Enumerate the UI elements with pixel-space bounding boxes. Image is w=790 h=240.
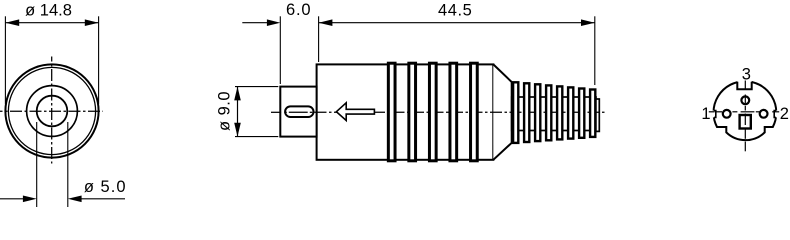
strain relief rib 5 — [557, 86, 562, 139]
svg-text:2: 2 — [780, 105, 789, 123]
svg-text:ø 5.0: ø 5.0 — [84, 178, 127, 196]
dimension ø5.0 left leader — [0, 198, 23, 200]
dimension ø5.0 extension line right — [67, 122, 69, 207]
svg-text:ø 14.8: ø 14.8 — [25, 1, 72, 19]
dimension ø5.0 arrow left — [23, 196, 37, 203]
cable cone — [493, 64, 511, 159]
dimension ø14.8 extension line left — [4, 16, 6, 104]
pin 1 hole — [723, 110, 731, 118]
dimension ø14.8 arrow right — [85, 19, 99, 26]
svg-text:ø 9.0: ø 9.0 — [216, 91, 234, 131]
svg-text:6.0: 6.0 — [286, 1, 311, 19]
svg-text:3: 3 — [742, 65, 751, 83]
direction arrow outline — [336, 103, 374, 121]
face horizontal centerline — [709, 111, 779, 113]
center key slot — [740, 115, 751, 129]
dimension 44.5 line — [319, 22, 595, 24]
body ring 4 — [450, 63, 457, 161]
front view horizontal centerline — [0, 110, 103, 112]
svg-text:1: 1 — [701, 105, 710, 123]
plug body — [317, 64, 494, 159]
dimension ø9.0 line — [237, 87, 239, 137]
strain relief core — [512, 97, 596, 131]
front view middle circle — [27, 86, 78, 137]
strain relief rib 2 — [524, 83, 529, 142]
dimension 6.0 left leader — [242, 22, 267, 24]
dimension 6.0 extension left — [279, 16, 281, 84]
body ring 3 — [429, 63, 436, 161]
dimension ø5.0 arrow right — [68, 196, 82, 203]
pin 3 hole — [741, 96, 749, 104]
svg-text:44.5: 44.5 — [438, 1, 473, 19]
right detent notch — [774, 111, 778, 118]
front barrel — [280, 87, 316, 137]
pin 2 hole — [760, 110, 768, 118]
dimension ø14.8 line — [5, 22, 98, 24]
body ring 5 — [471, 63, 478, 161]
dimension ø5.0 extension line left — [36, 122, 38, 207]
side view centerline — [271, 111, 606, 113]
body ring 1 — [388, 63, 395, 161]
keyway notch — [737, 77, 751, 89]
strain relief rib 4 — [546, 85, 551, 140]
front view inner circle — [37, 96, 68, 127]
face vertical centerline — [744, 81, 746, 152]
shield outline — [714, 81, 777, 140]
strain relief rib 1 — [513, 82, 518, 143]
dimension 44.5 extension right — [594, 16, 596, 85]
strain relief rib 7 — [579, 89, 584, 138]
dimension ø9.0 extension top — [235, 86, 278, 88]
dimension 6.0 extension right / 44.5 left — [318, 16, 320, 62]
dimension ø5.0 right leader — [81, 198, 125, 200]
strain relief rib 3 — [535, 84, 540, 141]
strain relief rib 6 — [568, 87, 573, 138]
front view vertical centerline — [51, 57, 53, 164]
body ring 2 — [409, 63, 416, 161]
dimension ø9.0 extension bottom — [235, 136, 278, 138]
barrel slot — [285, 106, 313, 117]
dimension ø9.0 arrow down — [234, 123, 241, 137]
strain relief end stub — [596, 99, 599, 131]
front view rim circle — [8, 67, 95, 154]
front view outer circle — [5, 64, 98, 157]
strain relief rib 8 — [590, 90, 595, 137]
dimension ø14.8 arrow left — [5, 19, 19, 26]
dimension ø9.0 arrow up — [234, 87, 241, 101]
left detent notch — [712, 111, 716, 118]
dimension ø14.8 extension line right — [98, 16, 100, 104]
dimension 44.5 arrow right — [581, 19, 595, 26]
dimension 44.5 arrow left — [319, 19, 333, 26]
dimension 6.0 arrow — [267, 19, 280, 26]
